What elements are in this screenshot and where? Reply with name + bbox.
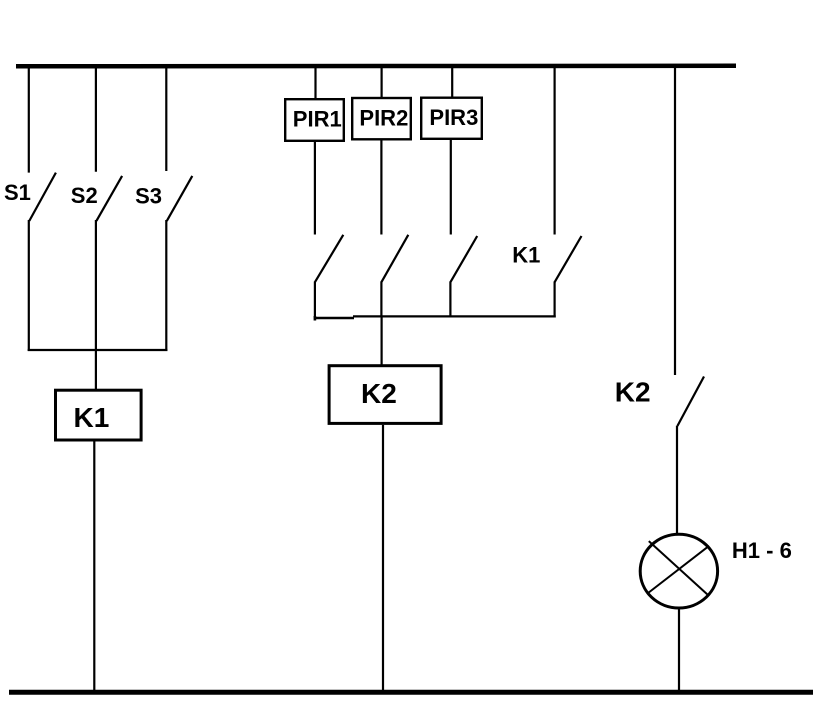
wire: relay coil K1 to bottom bus: [93, 442, 95, 693]
wire: top bus to contact K2: [674, 66, 676, 375]
wire: top bus to switch S2: [95, 66, 97, 172]
wire: lamp to bottom bus: [678, 610, 680, 693]
wire: sensor PIR1 to contact: [314, 142, 316, 235]
wire: switch S3 to left junction bar: [165, 220, 167, 351]
wire: switch S2 to left junction bar: [95, 220, 97, 351]
wire: PIR3 contact to mid junction bar: [449, 282, 451, 318]
wire: mid junction bar (right segment): [353, 315, 556, 317]
svg-text:S1: S1: [4, 180, 31, 205]
svg-text:H1 - 6: H1 - 6: [732, 538, 792, 563]
wire: top bus to sensor PIR1: [314, 66, 316, 99]
wire: sensor PIR2 to contact: [380, 141, 382, 235]
wire: left junction bar: [28, 349, 168, 351]
svg-text:S3: S3: [135, 184, 162, 209]
svg-text:S2: S2: [71, 183, 98, 208]
contact K2: [677, 377, 704, 427]
sensor PIR1: [285, 99, 344, 141]
relay coil K2: [329, 366, 441, 424]
switch S2: [96, 176, 122, 221]
svg-text:K2: K2: [615, 377, 651, 408]
bottom supply bus: [9, 690, 813, 695]
sensor PIR3: [421, 98, 482, 139]
svg-text:K2: K2: [361, 378, 397, 409]
wire: left junction to relay coil K1: [95, 350, 97, 389]
contact PIR2: [381, 235, 408, 282]
switch S1: [29, 173, 56, 221]
wire: relay coil K2 to bottom bus: [382, 425, 384, 692]
sensor PIR2: [352, 98, 411, 139]
switch S3: [167, 176, 193, 221]
wire: PIR2 contact to mid junction bar: [380, 282, 382, 318]
wire: top bus to contact K1: [553, 66, 555, 235]
junction: PIR1 branch overshoot: [314, 316, 317, 321]
wire: sensor PIR3 to contact: [450, 140, 452, 235]
wire: PIR1 contact to mid junction bar: [314, 282, 316, 318]
wire: top bus to sensor PIR2: [381, 66, 383, 98]
wire: top bus to switch S1: [28, 66, 30, 173]
contact PIR3: [450, 236, 477, 282]
svg-text:K1: K1: [512, 243, 540, 268]
lamp H1-6: [640, 534, 717, 608]
contact K1: [555, 236, 582, 282]
svg-text:PIR2: PIR2: [359, 105, 408, 130]
wire: switch S1 to left junction bar: [28, 220, 30, 351]
wire: top bus to switch S3: [165, 66, 167, 171]
svg-text:K1: K1: [74, 402, 110, 433]
wire: mid junction to relay coil K2: [381, 317, 383, 366]
contact PIR1: [315, 235, 343, 282]
wire: K1 contact to mid junction bar: [553, 282, 555, 318]
relay coil K1: [56, 390, 142, 440]
top supply bus: [16, 64, 736, 69]
wire: top bus to sensor PIR3: [451, 66, 453, 98]
wire: mid junction bar (left segment): [314, 317, 354, 319]
svg-text:PIR3: PIR3: [429, 105, 478, 130]
svg-text:PIR1: PIR1: [293, 107, 342, 132]
wire: K2 contact to lamp: [676, 426, 678, 534]
